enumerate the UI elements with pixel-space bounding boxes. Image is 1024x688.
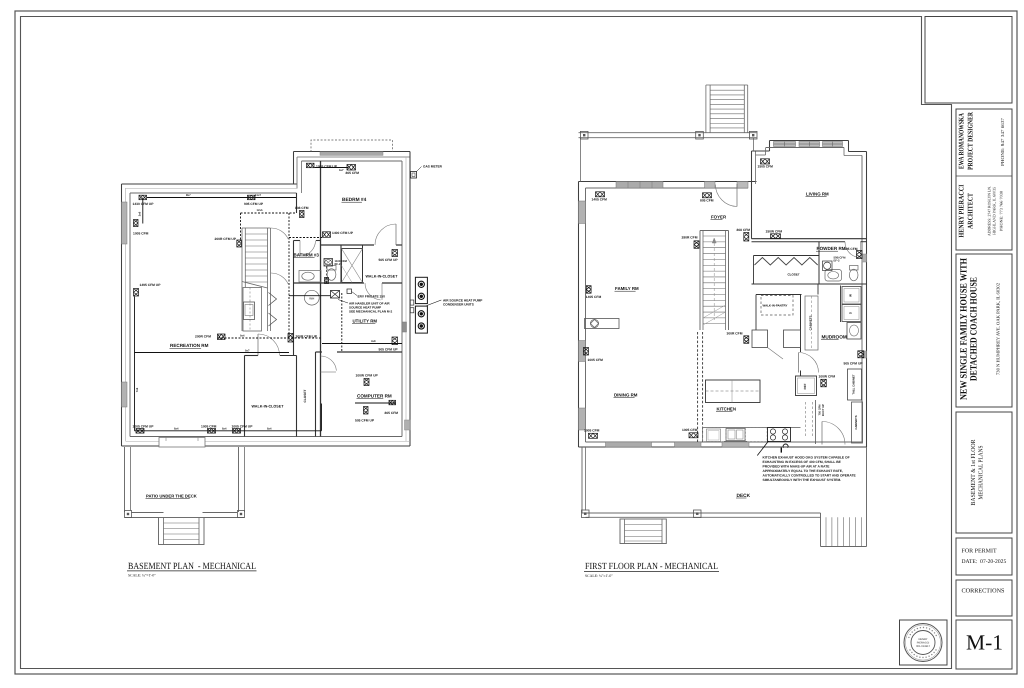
svg-text:WH: WH <box>309 296 314 300</box>
svg-text:REF: REF <box>803 383 807 389</box>
svg-text:200R CFM UP: 200R CFM UP <box>215 237 237 241</box>
svg-text:1005 CFM: 1005 CFM <box>201 424 217 428</box>
svg-text:8x7: 8x7 <box>186 193 191 197</box>
svg-text:200R CFM: 200R CFM <box>195 335 211 339</box>
svg-text:7x6: 7x6 <box>136 387 139 392</box>
svg-text:GAS METER: GAS METER <box>423 164 443 168</box>
svg-text:HIGHLAND PARK, IL 60035: HIGHLAND PARK, IL 60035 <box>992 187 997 235</box>
svg-text:PATIO UNDER THE DECK: PATIO UNDER THE DECK <box>146 494 197 499</box>
svg-text:EWA ROMANOWSKA: EWA ROMANOWSKA <box>958 112 966 169</box>
svg-text:POWDER RM: POWDER RM <box>817 246 846 251</box>
svg-text:DUCT UP: DUCT UP <box>822 404 825 416</box>
svg-text:APPROXIMATELY EQUAL TO THE EXH: APPROXIMATELY EQUAL TO THE EXHAUST RATE, <box>763 469 843 473</box>
svg-text:1005 CFM: 1005 CFM <box>682 428 698 432</box>
svg-text:PROVIDED WITH MAKE-UP AIR AT A: PROVIDED WITH MAKE-UP AIR AT A RATE <box>763 464 831 468</box>
svg-text:DETACHED COACH HOUSE: DETACHED COACH HOUSE <box>969 277 980 381</box>
svg-text:DATE: 07-20-2025: DATE: 07-20-2025 <box>962 559 1007 565</box>
svg-text:505 CFM UP: 505 CFM UP <box>355 419 375 423</box>
svg-text:LIVING RM: LIVING RM <box>806 192 829 197</box>
svg-text:CORRECTIONS: CORRECTIONS <box>962 588 1006 595</box>
svg-text:4x8: 4x8 <box>371 340 376 343</box>
svg-text:100W CFM: 100W CFM <box>819 375 836 379</box>
svg-text:CLOSET: CLOSET <box>303 389 307 402</box>
svg-text:AUTOMATICALLY CONTROLLED TO ST: AUTOMATICALLY CONTROLLED TO START AND OP… <box>763 474 857 478</box>
svg-text:UTILITY RM: UTILITY RM <box>353 319 378 324</box>
svg-text:808 CFM: 808 CFM <box>295 206 309 210</box>
svg-text:CABINETS: CABINETS <box>854 415 858 429</box>
svg-text:505 CFM UP: 505 CFM UP <box>379 348 399 352</box>
svg-text:RECREATION RM: RECREATION RM <box>170 343 209 348</box>
svg-text:1505 CFM: 1505 CFM <box>758 165 774 169</box>
svg-text:1005 CFM UP: 1005 CFM UP <box>316 164 338 168</box>
svg-text:001-013617: 001-013617 <box>916 645 930 648</box>
svg-text:1005 CFM: 1005 CFM <box>133 232 149 236</box>
svg-text:KITCHEN: KITCHEN <box>717 407 737 412</box>
svg-text:HENRY: HENRY <box>919 638 928 641</box>
svg-text:1430 CFM UP: 1430 CFM UP <box>133 202 155 206</box>
svg-text:TALL CABINET: TALL CABINET <box>852 374 856 394</box>
svg-text:805 CFM: 805 CFM <box>700 198 714 202</box>
svg-text:W: W <box>849 294 853 297</box>
svg-text:WALK-IN-PANTRY: WALK-IN-PANTRY <box>763 304 788 308</box>
svg-text:SIMULTANEOUSLY WITH THE EXHAUS: SIMULTANEOUSLY WITH THE EXHAUST SYSTEM. <box>763 478 842 482</box>
svg-text:505 CFM UP: 505 CFM UP <box>844 362 864 366</box>
svg-text:MUDROOM: MUDROOM <box>822 335 847 340</box>
svg-text:EF-2: EF-2 <box>834 259 841 263</box>
svg-text:BASEMENT PLAN - MECHANICAL: BASEMENT PLAN - MECHANICAL <box>128 562 256 572</box>
svg-text:730 N HUMPHREY AVE. OAK PARK,: 730 N HUMPHREY AVE. OAK PARK, IL 60302 <box>996 282 1001 375</box>
svg-text:280R CFM: 280R CFM <box>682 236 698 240</box>
svg-text:1495 CFM UP: 1495 CFM UP <box>140 283 162 287</box>
svg-text:PIERACCI: PIERACCI <box>917 642 930 645</box>
svg-text:8x4: 8x4 <box>267 428 272 431</box>
svg-text:FIRST FLOOR PLAN - MECHANICAL: FIRST FLOOR PLAN - MECHANICAL <box>585 562 718 572</box>
svg-text:FOR PERMIT: FOR PERMIT <box>962 549 998 555</box>
svg-text:9x7: 9x7 <box>245 349 250 352</box>
svg-text:6x7: 6x7 <box>339 169 344 172</box>
svg-text:ARCHITECT: ARCHITECT <box>967 193 975 229</box>
svg-text:150W CFM: 150W CFM <box>766 229 783 233</box>
svg-text:COMPUTER RM: COMPUTER RM <box>357 394 392 399</box>
svg-text:CLOSET: CLOSET <box>788 273 800 277</box>
svg-text:8x4: 8x4 <box>174 428 179 431</box>
svg-text:FAMILY RM: FAMILY RM <box>615 286 639 291</box>
svg-text:DINING RM: DINING RM <box>614 393 638 398</box>
svg-text:11x7: 11x7 <box>255 193 262 197</box>
svg-text:PHONE: 773 766 7038: PHONE: 773 766 7038 <box>999 191 1004 231</box>
svg-text:BATHRM #3: BATHRM #3 <box>294 253 320 258</box>
svg-text:1400 CFM UP: 1400 CFM UP <box>332 231 354 235</box>
svg-text:ERV FRIGATE 150: ERV FRIGATE 150 <box>358 295 386 299</box>
svg-text:9x4: 9x4 <box>240 335 245 338</box>
svg-text:505 CFM UP: 505 CFM UP <box>379 258 399 262</box>
svg-text:PHONE: 847 347 6637: PHONE: 847 347 6637 <box>1000 117 1005 166</box>
svg-text:EF-2: EF-2 <box>335 263 341 266</box>
svg-text:1005 CFM UP: 1005 CFM UP <box>133 424 155 428</box>
svg-text:1005 CFM: 1005 CFM <box>588 358 604 362</box>
svg-text:808 CFM: 808 CFM <box>737 228 751 232</box>
svg-text:PROJECT DESIGNER: PROJECT DESIGNER <box>967 111 975 170</box>
svg-text:MECHANICAL PLANS: MECHANICAL PLANS <box>978 445 985 499</box>
svg-text:305 CFM: 305 CFM <box>844 247 858 251</box>
svg-text:3x6: 3x6 <box>138 211 141 216</box>
svg-text:EXHAUSTING IN EXCESS OF 400 CF: EXHAUSTING IN EXCESS OF 400 CFM, SHALL B… <box>763 460 842 464</box>
svg-text:SCALE: ¼"=1'-0": SCALE: ¼"=1'-0" <box>128 574 156 578</box>
svg-text:1005 CFM: 1005 CFM <box>584 429 600 433</box>
svg-text:1005 CFM UP: 1005 CFM UP <box>232 424 254 428</box>
svg-text:8x4: 8x4 <box>222 428 227 431</box>
svg-text:BASEMENT & 1st FLOOR: BASEMENT & 1st FLOOR <box>970 439 977 506</box>
svg-text:FOYER: FOYER <box>711 214 727 219</box>
svg-text:12x6: 12x6 <box>257 209 263 212</box>
svg-text:1405 CFM: 1405 CFM <box>592 197 608 201</box>
svg-text:SCALE: ¼"=1'-0": SCALE: ¼"=1'-0" <box>585 574 613 578</box>
svg-text:905 CFM UP: 905 CFM UP <box>244 202 264 206</box>
svg-text:WALK-IN-CLOSET: WALK-IN-CLOSET <box>366 275 399 279</box>
svg-text:100W CFM UP: 100W CFM UP <box>356 374 379 378</box>
svg-text:WALK-IN-CLOSET: WALK-IN-CLOSET <box>252 405 285 409</box>
svg-text:SEE MECHANICAL PLAN M-2: SEE MECHANICAL PLAN M-2 <box>349 310 393 314</box>
svg-text:805 CFM: 805 CFM <box>346 171 360 175</box>
svg-text:CONDENSER UNITS: CONDENSER UNITS <box>443 303 474 307</box>
svg-text:805 CFM: 805 CFM <box>385 411 399 415</box>
svg-text:HENRY PIERACCI: HENRY PIERACCI <box>958 184 966 237</box>
svg-text:300R CFM: 300R CFM <box>727 331 743 335</box>
svg-text:CABINETS: CABINETS <box>809 316 813 331</box>
svg-text:M-1: M-1 <box>966 631 1003 655</box>
svg-text:300R CFM UP: 300R CFM UP <box>296 335 318 339</box>
svg-text:KITCHEN EXHAUST HOOD OKG SYSTE: KITCHEN EXHAUST HOOD OKG SYSTEM CAPABLE … <box>763 455 850 459</box>
svg-text:1405 CFM: 1405 CFM <box>586 295 602 299</box>
